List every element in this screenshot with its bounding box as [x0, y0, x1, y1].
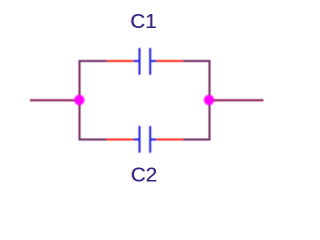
node junction right: [204, 95, 214, 105]
svg-text:C2: C2: [131, 164, 157, 187]
wire bottom rail left: [79, 139, 107, 141]
wire right vertical: [209, 60, 211, 141]
wire bottom rail right: [183, 139, 211, 141]
wire top rail left: [79, 60, 108, 62]
wire right lead: [210, 99, 264, 101]
node junction left: [74, 95, 84, 105]
wire left lead: [30, 99, 80, 101]
capacitor C2: [107, 126, 184, 153]
wire left vertical: [79, 60, 81, 141]
wire top rail right: [183, 60, 211, 62]
capacitor C1: [107, 48, 183, 75]
svg-text:C1: C1: [131, 10, 157, 33]
